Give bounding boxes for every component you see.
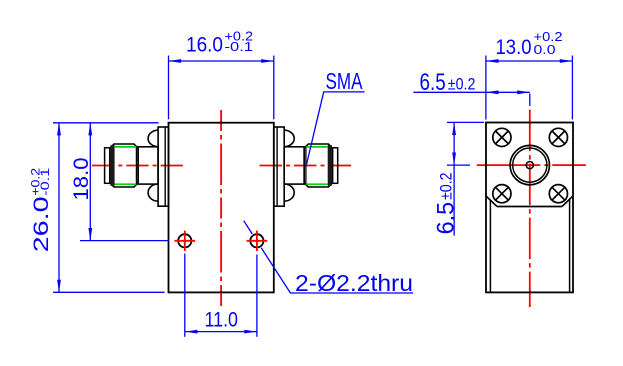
svg-text:0.0: 0.0	[534, 42, 556, 57]
right nut chamfer band	[328, 145, 332, 186]
svg-text:-0.1: -0.1	[225, 39, 254, 54]
screw bottom-right	[549, 185, 567, 203]
flange bottom-right chamfer	[562, 196, 573, 207]
left mating face	[105, 148, 110, 184]
svg-text:13.0: 13.0	[496, 35, 532, 59]
right nut thread lines (green)	[306, 146, 327, 148]
svg-text:16.0: 16.0	[186, 33, 223, 57]
6.5 left arrows	[452, 122, 456, 135]
dim line 6.5 top	[413, 91, 529, 93]
right mating face	[333, 148, 338, 184]
SMA connector circles	[510, 145, 549, 184]
left flange top bump	[148, 130, 158, 147]
screw top-left	[493, 128, 511, 146]
right connector axis (red)	[260, 165, 352, 167]
left hex nut	[110, 144, 138, 187]
mounting hole right cross (red)	[247, 240, 268, 242]
svg-text:SMA: SMA	[326, 68, 363, 94]
right flange top bump	[284, 130, 294, 147]
ext line 26.0 bottom	[53, 291, 165, 293]
dim line 16.0	[169, 60, 274, 62]
left connector flange	[158, 127, 168, 206]
left nut inner line	[135, 146, 137, 185]
mounting hole left	[178, 234, 191, 247]
ext lines 26.0 / 18.0 top shared	[53, 122, 159, 124]
svg-text:2-Ø2.2thru: 2-Ø2.2thru	[295, 270, 413, 296]
ext line 18.0 bottom	[80, 240, 169, 242]
screw top-right	[549, 128, 567, 146]
SMA leader	[307, 92, 365, 165]
right hex nut	[304, 144, 332, 187]
dim line 6.5 left	[453, 122, 455, 235]
right flange bottom bump	[284, 184, 294, 201]
flange bottom-left chamfer	[486, 196, 497, 207]
ext lines 13.0	[485, 56, 487, 120]
svg-text:±0.2: ±0.2	[448, 75, 476, 94]
SMA center pin	[526, 162, 533, 169]
dim line 26.0	[58, 123, 60, 292]
svg-text:-0.1: -0.1	[38, 167, 52, 195]
26.0 arrows	[57, 123, 61, 136]
centerline horizontal axis (red)	[92, 165, 183, 167]
svg-text:18.0: 18.0	[69, 157, 93, 200]
18.0 arrows	[88, 123, 92, 136]
svg-text:11.0: 11.0	[205, 307, 239, 331]
right nut inner line	[305, 146, 307, 185]
16.0 arrows	[169, 59, 182, 63]
svg-text:26.0: 26.0	[30, 196, 53, 252]
dim line 13.0	[486, 60, 573, 62]
centerline horizontal (red)	[477, 164, 586, 166]
left flange bottom bump	[148, 184, 158, 201]
arrowheads blue	[57, 59, 572, 333]
hole leader 2-2.2	[244, 221, 413, 293]
mounting hole left cross (red)	[175, 240, 196, 242]
ext lines 6.5 left	[447, 121, 484, 123]
screw bottom-left	[493, 185, 511, 203]
13.0 arrows	[486, 59, 499, 63]
dim line 18.0	[89, 123, 91, 241]
right connector flange	[274, 127, 284, 206]
centerline vertical body (red)	[220, 110, 222, 307]
left nut chamfer band	[111, 145, 115, 186]
svg-text:6.5: 6.5	[420, 69, 446, 96]
ext line 6.5 top center	[529, 94, 531, 107]
ext lines 11.0 from holes	[184, 254, 186, 337]
ext lines 16.0	[168, 56, 170, 120]
body inner edge left	[489, 200, 491, 292]
body inner edge right	[569, 200, 571, 292]
svg-text:6.5: 6.5	[433, 202, 460, 235]
svg-text:±0.2: ±0.2	[437, 172, 456, 200]
left nut thread lines (green)	[115, 146, 137, 148]
11.0 arrows	[185, 330, 198, 334]
side view outline	[486, 123, 573, 293]
right connector cylinder	[284, 147, 304, 184]
centerline vertical (red)	[529, 110, 531, 307]
mounting hole right	[250, 234, 263, 247]
body outline	[169, 123, 274, 293]
6.5 top arrows	[486, 90, 499, 94]
flange bottom edge	[497, 206, 562, 208]
left connector cylinder	[138, 147, 158, 184]
dim line 11.0	[185, 331, 257, 333]
